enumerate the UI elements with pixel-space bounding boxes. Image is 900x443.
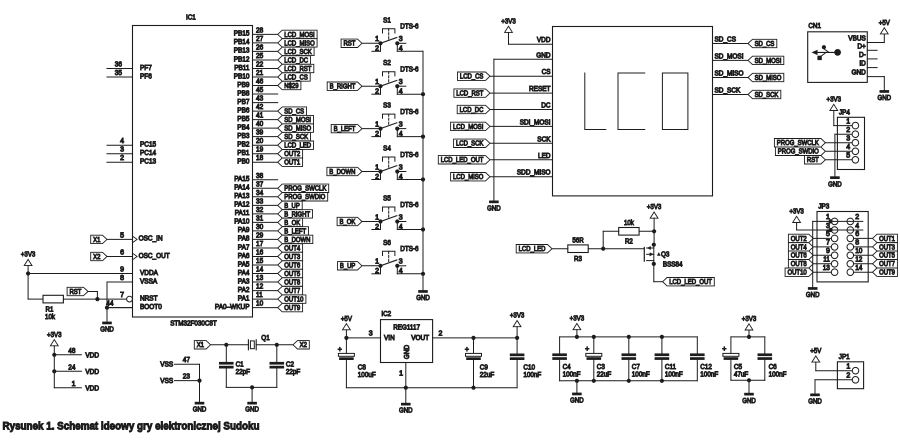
pin PF6 (35) of IC1	[107, 70, 152, 80]
node bus junction S3	[421, 135, 425, 139]
svg-text:42: 42	[256, 104, 263, 111]
svg-text:LCD_LED_OUT: LCD_LED_OUT	[669, 279, 712, 286]
svg-text:PROG_SWDIO: PROG_SWDIO	[284, 194, 325, 201]
pin 12 of JP3	[847, 257, 862, 268]
pin PC13 (2) of IC1	[107, 155, 156, 165]
net label OUT6 (JP3)	[788, 251, 831, 260]
svg-text:2: 2	[846, 127, 850, 134]
ground (switches)	[416, 290, 430, 302]
caption Rysunek 1	[3, 421, 260, 433]
pin 1 of JP1	[846, 364, 858, 375]
node bank bottom gnd	[575, 379, 579, 383]
pin 10 of JP3	[847, 248, 862, 259]
node bank top +3V3	[575, 335, 579, 339]
svg-text:3: 3	[399, 79, 403, 86]
svg-text:DTS-6: DTS-6	[400, 152, 418, 159]
svg-text:S3: S3	[383, 103, 391, 110]
wire junction up to R2	[603, 231, 619, 248]
svg-text:+: +	[465, 346, 469, 353]
svg-text:GND: GND	[100, 325, 114, 334]
svg-text:1: 1	[375, 164, 379, 171]
svg-text:18: 18	[256, 155, 263, 162]
svg-text:35: 35	[115, 70, 122, 77]
pin NRST (7) of IC1	[107, 292, 158, 302]
pin PA9 (30) of IC1	[238, 224, 278, 234]
svg-text:D+: D+	[857, 43, 865, 50]
wire R1 to NRST	[28, 292, 107, 300]
pin PB13 (26) of IC1	[234, 44, 278, 54]
svg-text:C4: C4	[563, 364, 571, 371]
svg-text:47: 47	[183, 357, 190, 364]
power +5V (IC2)	[341, 314, 352, 330]
pin SDI_MOSI of LCD	[520, 119, 551, 126]
node C5C6 top	[747, 335, 751, 339]
svg-text:PF6: PF6	[140, 73, 152, 80]
net label OUT7	[278, 286, 303, 295]
svg-text:B_LEFT: B_LEFT	[334, 126, 356, 133]
pin SD_MOSI of LCD (SD)	[715, 53, 744, 60]
svg-text:VDDA: VDDA	[140, 270, 158, 277]
wire LCD_LED to R3	[552, 248, 568, 250]
svg-text:CN1: CN1	[808, 23, 821, 30]
svg-text:10k: 10k	[45, 314, 55, 321]
wire LCD_MISO to LCD	[490, 176, 553, 178]
svg-text:12: 12	[855, 257, 862, 264]
svg-text:B_DOWN: B_DOWN	[329, 169, 355, 176]
svg-text:LCD_MOSI: LCD_MOSI	[284, 32, 314, 39]
net label LCD_LED_OUT	[663, 278, 715, 287]
svg-text:LCD_CS: LCD_CS	[284, 74, 308, 81]
net label OUT10	[278, 295, 306, 304]
svg-text:+: +	[722, 346, 726, 353]
net label X1 (crystal)	[194, 341, 210, 350]
svg-text:OUT9: OUT9	[284, 305, 300, 312]
svg-text:GND: GND	[193, 405, 207, 414]
power +3V3 (JP4)	[827, 95, 842, 111]
wire R3 to gate	[588, 248, 644, 250]
net label LCD_CS	[278, 73, 311, 82]
wire C3 drops	[593, 337, 595, 381]
svg-text:3: 3	[369, 330, 373, 337]
svg-text:SDD_MISO: SDD_MISO	[517, 170, 551, 177]
svg-text:9: 9	[826, 248, 830, 255]
net label RST (switch S1)	[341, 39, 362, 48]
svg-text:3: 3	[120, 147, 124, 154]
connector JP3 box	[817, 204, 868, 282]
svg-text:GND: GND	[878, 93, 892, 102]
ground (CN1)	[878, 90, 892, 102]
svg-text:+3V3: +3V3	[21, 250, 36, 259]
svg-text:+5V: +5V	[879, 18, 890, 27]
svg-text:S4: S4	[383, 146, 391, 153]
node C2 junction	[275, 343, 279, 347]
svg-text:1: 1	[375, 36, 379, 43]
wire B_RIGHT to S2 pin1	[362, 85, 381, 87]
pin PA7 (17) of IC1	[238, 241, 278, 251]
wire C4 drops	[559, 337, 561, 381]
svg-text:+: +	[585, 346, 589, 353]
capacitor C12 100nF	[690, 353, 718, 378]
ground (crystal)	[245, 402, 259, 414]
svg-text:RST: RST	[344, 41, 357, 48]
net label OUT3 (JP3)	[854, 243, 898, 252]
svg-text:PA13: PA13	[234, 193, 249, 200]
wire +3V3 to VDDA and down to R1	[28, 266, 132, 300]
svg-text:C6: C6	[769, 364, 777, 371]
power +3V3 (LCD)	[501, 16, 516, 32]
net label SD_MOSI (right)	[748, 56, 784, 65]
node C5C6 bottom	[747, 378, 751, 382]
svg-text:S1: S1	[383, 17, 391, 24]
svg-text:GND: GND	[570, 396, 584, 405]
node VDDA junction	[26, 271, 30, 275]
svg-text:16: 16	[256, 250, 263, 257]
wire LCD_SCK to LCD	[490, 142, 553, 144]
net label X1 (OSC_IN)	[91, 235, 107, 244]
ground (cap bank)	[570, 393, 584, 405]
svg-text:12: 12	[256, 284, 263, 291]
net label SD_MISO	[278, 124, 314, 133]
svg-text:PROG_SWDIO: PROG_SWDIO	[778, 149, 819, 156]
node C1 junction	[224, 343, 228, 347]
svg-text:2: 2	[439, 330, 443, 337]
svg-text:C12: C12	[700, 364, 712, 371]
svg-text:GND: GND	[245, 405, 259, 414]
wire cap bank +3V3 rail	[560, 330, 698, 337]
svg-text:19: 19	[256, 147, 263, 154]
net label OUT7 (JP3)	[854, 260, 898, 269]
svg-text:BSS84: BSS84	[663, 261, 683, 268]
svg-text:OUT4: OUT4	[791, 244, 807, 251]
net label LCD_RST	[454, 89, 490, 98]
net label PROG_SWCLK	[278, 184, 329, 193]
net label OUT8 (JP3)	[788, 260, 831, 269]
svg-text:3: 3	[399, 36, 403, 43]
node bank bottom C3	[592, 379, 596, 383]
net label SD_MISO (right)	[748, 73, 784, 82]
svg-text:PA11: PA11	[235, 210, 250, 217]
wire +3V3 to LCD VDD	[509, 32, 553, 44]
svg-text:38: 38	[256, 173, 263, 180]
pin VDD (24) of IC1	[68, 364, 99, 376]
svg-text:SD_CS: SD_CS	[284, 109, 304, 116]
ground (JP4)	[828, 176, 842, 188]
svg-text:LCD_DC: LCD_DC	[284, 57, 308, 64]
svg-text:13: 13	[823, 265, 830, 272]
pin PC15 (4) of IC1	[107, 138, 156, 148]
svg-text:S2: S2	[383, 60, 391, 67]
svg-text:100uF: 100uF	[358, 372, 376, 379]
ground (JP3)	[806, 287, 820, 299]
svg-text:VDD: VDD	[85, 369, 99, 376]
svg-text:PA8: PA8	[238, 236, 250, 243]
svg-text:6: 6	[855, 231, 859, 238]
node bus junction S4	[421, 177, 425, 181]
crystal Q1	[248, 335, 269, 350]
svg-text:PB0: PB0	[237, 159, 249, 166]
svg-text:LCD_LED: LCD_LED	[519, 246, 546, 253]
svg-text:34: 34	[256, 190, 263, 197]
wire crystal gnd rail	[226, 369, 276, 402]
net label LCD_SCK	[278, 47, 314, 56]
svg-text:46: 46	[256, 79, 263, 86]
node IC2 gnd junction	[404, 386, 408, 390]
net label LCD_MOSI	[278, 30, 317, 39]
capacitor C3 22uF	[585, 346, 611, 378]
svg-text:LCD_RST: LCD_RST	[456, 91, 484, 98]
svg-text:3: 3	[399, 121, 403, 128]
svg-text:N$29: N$29	[284, 83, 298, 90]
wire C12 drops	[696, 337, 698, 381]
power +3V3 (JP3)	[789, 207, 804, 223]
svg-text:DTS-6: DTS-6	[400, 246, 418, 253]
pin PA0–WKUP (10) of IC1	[215, 301, 278, 311]
wire S6 pin4 to bus	[397, 266, 423, 274]
svg-text:14: 14	[256, 267, 263, 274]
wire C1 drop	[225, 345, 227, 362]
svg-text:GND: GND	[806, 290, 820, 299]
power +3V3 (VOUT)	[510, 311, 525, 327]
svg-text:PA15: PA15	[234, 176, 249, 183]
wire LCD_DC to LCD	[490, 109, 553, 111]
wire LCD_CS to LCD	[490, 75, 553, 77]
node JP3 pin3	[829, 228, 833, 232]
svg-text:+3V3: +3V3	[647, 202, 662, 211]
svg-text:C7: C7	[632, 364, 640, 371]
node crystal gnd	[250, 385, 254, 389]
svg-text:SDI_MOSI: SDI_MOSI	[520, 119, 551, 126]
svg-text:PB4: PB4	[237, 124, 249, 131]
net label B_DOWN	[278, 235, 313, 244]
power +5V (JP1)	[810, 346, 821, 362]
svg-text:22uF: 22uF	[597, 372, 611, 379]
svg-text:2: 2	[846, 373, 850, 380]
svg-text:PB11: PB11	[234, 65, 249, 72]
svg-text:PA14: PA14	[234, 185, 249, 192]
net label X2 (crystal)	[293, 341, 309, 350]
svg-text:2: 2	[855, 214, 859, 221]
connector JP4 box	[837, 109, 864, 169]
svg-text:23: 23	[183, 374, 190, 381]
svg-text:5: 5	[846, 153, 850, 160]
wire B_UP to S6 pin1	[362, 265, 381, 267]
svg-text:14: 14	[855, 265, 862, 272]
svg-text:6: 6	[120, 250, 124, 257]
pin VSS (23) of IC1	[160, 374, 190, 386]
wire C9 drop	[473, 338, 475, 354]
pin PA14 (37) of IC1	[234, 181, 278, 191]
svg-text:3: 3	[399, 214, 403, 221]
svg-text:R1: R1	[46, 307, 54, 314]
wire LCD_MOSI to LCD	[490, 125, 553, 127]
svg-text:1: 1	[846, 118, 850, 125]
wire +3V3 to JP4 pin1	[834, 111, 852, 126]
svg-text:S6: S6	[383, 240, 391, 247]
wire +3V3 to JP3 pins3-4	[797, 223, 863, 231]
svg-text:4: 4	[120, 138, 124, 145]
svg-text:S5: S5	[383, 196, 391, 203]
node C8 junction	[344, 336, 348, 340]
svg-text:40: 40	[256, 121, 263, 128]
power +3V3 (VDD rail)	[47, 330, 62, 346]
svg-text:LCD_SCK: LCD_SCK	[284, 49, 312, 56]
svg-text:1: 1	[375, 121, 379, 128]
pin 8 of JP3	[847, 240, 859, 251]
capacitor C9 22uF	[465, 346, 494, 379]
net label X2 (OSC_OUT)	[91, 252, 107, 261]
wire IC2 gnd pin	[399, 363, 406, 403]
wire LCD_RST to LCD	[490, 92, 553, 94]
svg-text:22pF: 22pF	[236, 369, 250, 376]
svg-text:OUT5: OUT5	[879, 253, 895, 260]
svg-text:OSC_IN: OSC_IN	[139, 236, 163, 243]
svg-text:48: 48	[68, 348, 75, 355]
node bank bottom C11	[660, 379, 664, 383]
node VDD 48	[52, 353, 56, 357]
pin SD_MISO of LCD (SD)	[715, 71, 745, 78]
svg-text:PA9: PA9	[238, 227, 250, 234]
wire C10 to gnd rail	[516, 360, 518, 388]
pin DC of LCD	[541, 103, 550, 110]
pin PA15 (38) of IC1	[234, 173, 278, 183]
pin SD_SCK of LCD (SD)	[715, 88, 741, 95]
net label SD_CS	[278, 107, 307, 116]
wire +5V to JP1 pin1	[816, 362, 852, 371]
switch S4 DTS-6	[372, 146, 419, 181]
pin PB10 (21) of IC1	[234, 70, 278, 80]
net label RST (NRST)	[67, 287, 88, 296]
pin 9 of JP3	[826, 248, 838, 259]
pin PB1 (19) of IC1	[237, 147, 277, 157]
svg-text:+: +	[338, 346, 342, 353]
svg-text:PF7: PF7	[140, 65, 152, 72]
net label OUT9 (JP3)	[854, 268, 898, 277]
svg-text:PB1: PB1	[237, 150, 249, 157]
pin VDD (1) of IC1	[72, 381, 99, 393]
net label LCD_MOSI	[451, 122, 490, 131]
wire SD_MOSI	[713, 59, 749, 61]
svg-text:100nF: 100nF	[665, 372, 683, 379]
svg-text:SD_CS: SD_CS	[755, 41, 775, 48]
net label OUT6	[278, 261, 303, 270]
svg-text:8: 8	[855, 240, 859, 247]
svg-text:VBUS: VBUS	[848, 36, 866, 43]
svg-text:BOOT0: BOOT0	[140, 304, 162, 311]
power +3V3 (C5 C6)	[742, 314, 757, 330]
USB icon of CN1	[812, 45, 841, 60]
svg-text:LCD_MOSI: LCD_MOSI	[453, 124, 483, 131]
svg-text:GND: GND	[536, 52, 550, 59]
svg-text:VSS: VSS	[160, 378, 173, 385]
svg-text:C5: C5	[734, 364, 742, 371]
svg-text:OUT2: OUT2	[284, 151, 300, 158]
svg-text:21: 21	[256, 70, 263, 77]
capacitor C6 100nF	[758, 353, 787, 378]
pin VDD of LCD	[537, 37, 551, 44]
svg-text:45: 45	[256, 87, 263, 94]
pin PB9 (46) of IC1	[237, 79, 277, 89]
svg-text:GND: GND	[852, 70, 866, 77]
ground (VSS)	[193, 402, 207, 414]
svg-text:100nF: 100nF	[563, 372, 581, 379]
net label SD_SCK (right)	[748, 90, 781, 99]
svg-text:5: 5	[120, 232, 124, 239]
svg-text:DTS-6: DTS-6	[400, 67, 418, 74]
capacitor C10 100nF	[510, 354, 542, 379]
svg-text:DTS-6: DTS-6	[400, 109, 418, 116]
ground (JP1)	[808, 394, 822, 406]
wire D+ stub	[867, 49, 877, 51]
node C10 junction	[515, 336, 519, 340]
svg-text:+3V3: +3V3	[47, 330, 62, 339]
svg-text:OUT7: OUT7	[284, 288, 300, 295]
svg-text:+5V: +5V	[341, 314, 352, 323]
wire +5V to VIN	[346, 330, 380, 338]
net label RST (JP4)	[805, 156, 853, 165]
svg-text:1: 1	[375, 214, 379, 221]
switch S6 DTS-6	[372, 240, 419, 275]
pin 7 of JP3	[826, 240, 838, 251]
net label LCD_CS	[458, 72, 491, 81]
svg-text:OUT6: OUT6	[791, 253, 807, 260]
svg-text:C10: C10	[523, 364, 535, 371]
svg-text:VSS: VSS	[160, 362, 173, 369]
pin PA1 (11) of IC1	[238, 292, 278, 302]
svg-text:RST: RST	[807, 157, 820, 164]
node VSS junction	[197, 379, 201, 383]
svg-text:NRST: NRST	[140, 295, 158, 302]
net label LCD_LED_OUT	[438, 156, 490, 165]
svg-text:1: 1	[375, 79, 379, 86]
wire C9 to gnd rail	[473, 360, 475, 388]
svg-text:PA1: PA1	[238, 295, 250, 302]
svg-text:B_LEFT: B_LEFT	[284, 228, 306, 235]
pin PB15 (28) of IC1	[234, 27, 278, 37]
svg-text:LCD_LED_OUT: LCD_LED_OUT	[441, 157, 484, 164]
svg-text:PA5: PA5	[238, 261, 250, 268]
svg-text:29: 29	[256, 232, 263, 239]
pin 5 of JP3	[826, 231, 838, 242]
pin LED of LCD	[538, 153, 551, 160]
svg-text:7: 7	[826, 240, 830, 247]
capacitor C4 100nF	[552, 353, 580, 378]
wire S4 pin4 to bus	[397, 172, 423, 180]
pin BOOT0 (44) of IC1	[106, 301, 162, 311]
svg-text:LCD_RST: LCD_RST	[284, 66, 312, 73]
net label OUT1	[278, 158, 303, 167]
pin RESET of LCD	[529, 86, 551, 93]
wire B_OK to S5 pin1	[362, 221, 381, 223]
node R2/R3 junction	[601, 247, 605, 251]
wire R2 to +3V3 rail	[639, 230, 654, 232]
node C9 gnd junction	[471, 386, 475, 390]
node bank top C7	[627, 335, 631, 339]
pin PB7 (43) of IC1	[237, 96, 277, 106]
net label OUT2 (JP3)	[788, 234, 831, 243]
svg-text:PB14: PB14	[234, 39, 250, 46]
pin 3 of JP4	[846, 136, 858, 147]
wire Q3 drain to LCD_LED_OUT	[654, 264, 663, 282]
svg-text:C1: C1	[236, 362, 244, 369]
svg-text:STM32F030C8T: STM32F030C8T	[170, 321, 217, 328]
svg-text:X2: X2	[93, 254, 100, 261]
svg-text:LCD_LED: LCD_LED	[284, 143, 311, 150]
svg-text:JP3: JP3	[818, 204, 829, 211]
net label B_UP (switch S6)	[338, 262, 363, 271]
svg-text:LCD_MISO: LCD_MISO	[453, 174, 484, 181]
svg-text:C2: C2	[286, 362, 294, 369]
svg-text:Q3: Q3	[661, 251, 669, 258]
